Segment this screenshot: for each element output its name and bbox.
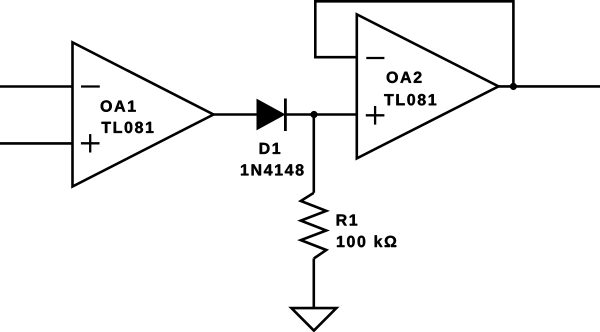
label TL081 (OA2) bbox=[384, 94, 436, 105]
wire OA1 non-inverting input bbox=[0, 142, 73, 145]
label TL081 (OA1) bbox=[102, 122, 154, 133]
diode D1 bbox=[257, 99, 285, 132]
label OA1 bbox=[101, 100, 136, 111]
op-amp OA2 bbox=[357, 14, 499, 158]
label D1 bbox=[260, 143, 281, 154]
node OA2 output bbox=[510, 83, 517, 90]
ground bbox=[291, 308, 336, 331]
wire OA2 output bbox=[499, 85, 600, 88]
wire feedback OA2 output to inverting input bbox=[315, 1, 513, 86]
node junction D1/R1/OA2 bbox=[311, 111, 318, 118]
op-amp OA2 inverting pin minus sign bbox=[366, 57, 384, 59]
wire R1 to ground bbox=[312, 259, 315, 309]
resistor R1 bbox=[301, 193, 327, 259]
op-amp OA1 non-inverting pin plus sign bbox=[81, 134, 100, 152]
wire OA1 inverting input bbox=[0, 85, 73, 88]
op-amp OA2 non-inverting pin plus sign bbox=[366, 106, 385, 125]
op-amp OA1 inverting pin minus sign bbox=[81, 85, 100, 87]
label 100 kOhm bbox=[337, 235, 396, 247]
wire D1 to OA2 non-inverting input bbox=[285, 113, 356, 116]
label 1N4148 bbox=[241, 164, 304, 175]
op-amp OA1 bbox=[73, 42, 214, 186]
label OA2 bbox=[387, 72, 422, 83]
label R1 bbox=[337, 215, 358, 226]
wire junction to R1 bbox=[312, 115, 315, 193]
wire OA1 output to D1 bbox=[214, 113, 259, 116]
